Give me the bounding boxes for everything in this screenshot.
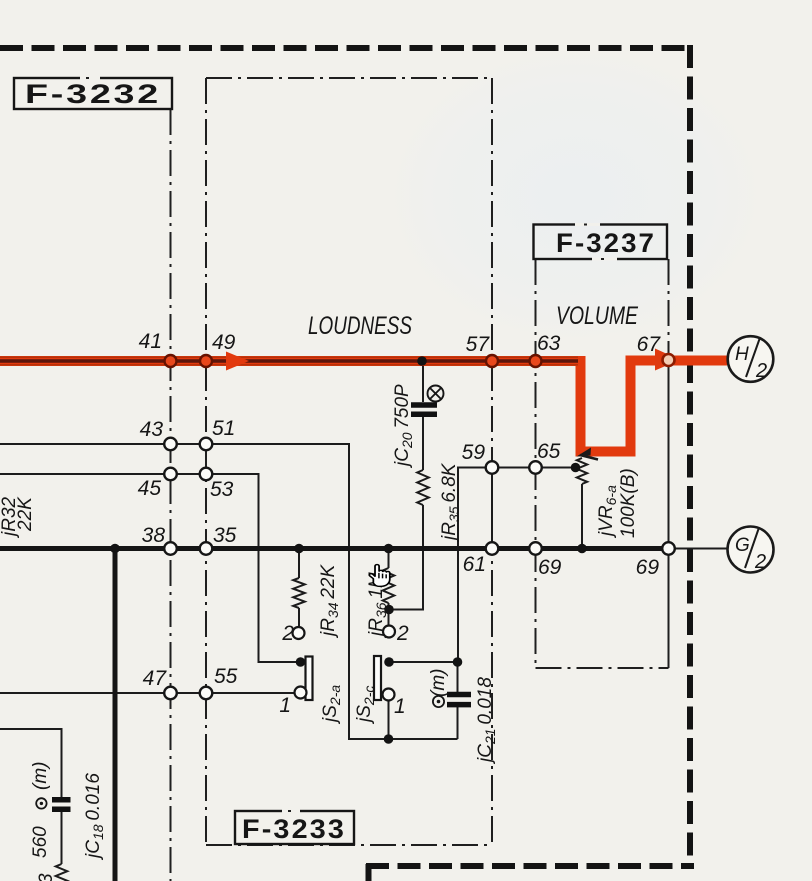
svg-text:2: 2 [396,622,409,645]
svg-text:100K(B): 100K(B) [618,468,639,538]
svg-text:47: 47 [143,667,168,690]
svg-text:57: 57 [466,333,491,356]
svg-text:59: 59 [462,441,486,464]
svg-text:69: 69 [636,556,660,579]
svg-text:55: 55 [214,665,238,688]
svg-text:jC18 0.016: jC18 0.016 [83,773,106,861]
svg-text:jR35 6.8K: jR35 6.8K [439,462,462,543]
svg-text:67: 67 [637,333,662,356]
svg-text:45: 45 [138,477,162,500]
svg-text:1: 1 [394,695,406,718]
svg-text:LOUDNESS: LOUDNESS [308,312,412,340]
svg-text:jR34 22K: jR34 22K [318,564,341,639]
svg-text:560: 560 [30,826,51,858]
svg-text:53: 53 [210,478,234,501]
svg-text:F-3233: F-3233 [242,814,346,844]
svg-text:H: H [735,344,749,365]
svg-text:1: 1 [279,694,291,717]
svg-text:(m): (m) [428,669,449,697]
svg-text:69: 69 [538,556,562,579]
svg-text:2: 2 [754,551,766,573]
svg-text:43: 43 [140,418,164,441]
svg-text:jC21 0.018: jC21 0.018 [475,677,498,765]
svg-text:51: 51 [212,417,235,440]
svg-text:38: 38 [142,524,166,547]
svg-text:35: 35 [213,524,237,547]
svg-text:jC20 750P: jC20 750P [392,384,415,469]
svg-text:49: 49 [212,331,236,354]
svg-text:VOLUME: VOLUME [556,302,638,330]
svg-text:G: G [735,535,750,556]
svg-text:2: 2 [281,622,294,645]
svg-text:22K: 22K [15,496,36,532]
svg-text:F-3237: F-3237 [556,228,656,258]
svg-text:65: 65 [537,440,561,463]
svg-text:(m): (m) [30,762,51,790]
svg-text:F-3232: F-3232 [25,79,161,109]
svg-text:3: 3 [36,873,57,881]
svg-text:63: 63 [537,332,561,355]
svg-text:61: 61 [463,553,486,576]
svg-text:2: 2 [755,360,767,382]
svg-text:41: 41 [139,330,162,353]
